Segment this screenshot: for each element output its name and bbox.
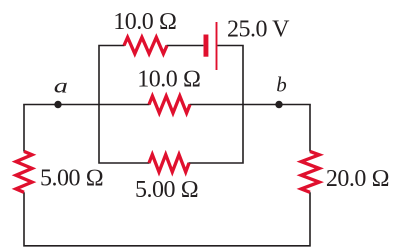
- wire: outer right vertical (top segment): [309, 105, 311, 152]
- node a junction dot: [54, 101, 61, 108]
- wire: outer left vertical (bottom) + bottom wire + outer right vertical (bottom): [24, 192, 310, 246]
- resistor R5 20.0 ohm (outer right) zigzag: [301, 151, 319, 192]
- battery 25.0 V negative plate (short thick bar): [204, 35, 209, 57]
- battery 25.0 V positive plate (long thin bar): [216, 22, 218, 70]
- wire: battery to inner right rail + bottom-right corner of inner box: [189, 46, 244, 164]
- wire: inner box left rail + top-left and bottom-left corners: [99, 46, 150, 164]
- svg-text:b: b: [276, 72, 287, 96]
- svg-text:20.0 Ω: 20.0 Ω: [326, 166, 389, 192]
- wire: main horizontal rail left (through node a): [23, 104, 149, 106]
- svg-text:5.00 Ω: 5.00 Ω: [40, 166, 103, 192]
- wire: top branch, resistor to battery: [167, 45, 204, 47]
- resistor R3 5.00 ohm (inner bottom branch) zigzag: [149, 155, 189, 173]
- resistor R2 10.0 ohm (middle branch) zigzag: [149, 96, 190, 113]
- svg-text:10.0 Ω: 10.0 Ω: [113, 9, 176, 35]
- resistor R4 5.00 ohm (outer left) zigzag: [16, 151, 32, 192]
- svg-text:5.00 Ω: 5.00 Ω: [135, 177, 198, 203]
- wire: main horizontal rail right (through node b): [190, 104, 311, 106]
- svg-text:10.0 Ω: 10.0 Ω: [137, 67, 200, 93]
- resistor R1 10.0 ohm (top branch) zigzag: [124, 37, 167, 53]
- node b junction dot: [275, 101, 282, 108]
- wire: outer left vertical (top segment): [23, 105, 25, 152]
- svg-text:25.0 V: 25.0 V: [227, 16, 290, 42]
- svg-text:a: a: [54, 75, 68, 98]
